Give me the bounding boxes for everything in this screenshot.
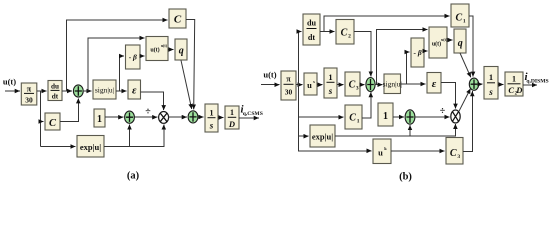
svg-text:u(t): u(t) xyxy=(150,47,159,54)
svg-text:exp|u|: exp|u| xyxy=(312,132,333,142)
svg-text:s: s xyxy=(209,121,214,131)
block: π/30 gain (a) xyxy=(21,83,37,105)
block: -β gain (a) xyxy=(126,45,141,69)
wire: S1 to sign|u| (a) xyxy=(83,90,91,92)
wire: bottom C3 up into final sum bottom (b) xyxy=(463,91,472,151)
wire: ε to product top port (b) xyxy=(441,83,456,109)
wire: -β to u(t)^u(t) (b) xyxy=(424,50,428,52)
wire: S2 to product (a) xyxy=(134,116,157,118)
wire: q diagonal down to final sum (b) xyxy=(460,53,471,77)
block: 1/(C2D) gain (b) xyxy=(505,72,523,97)
wire: final sum to 1/s (b) xyxy=(479,83,483,85)
svg-text:(b): (b) xyxy=(399,172,412,183)
svg-text:÷: ÷ xyxy=(440,106,446,117)
svg-text:30: 30 xyxy=(285,88,293,97)
svg-text:u(t): u(t) xyxy=(263,70,276,80)
wire: riser down to u^k row (b) xyxy=(299,85,372,151)
svg-text:π: π xyxy=(27,85,32,94)
wire: sign|u| to ε (b) xyxy=(401,83,426,85)
wire: u(t)^u(t) to q (a) xyxy=(168,49,174,51)
svg-text:÷: ÷ xyxy=(145,107,151,118)
block: -β gain (b) xyxy=(411,38,424,67)
svg-text:sign|u|: sign|u| xyxy=(383,80,402,89)
block: C1 gain mid (b) xyxy=(345,105,362,129)
svg-text:30: 30 xyxy=(25,96,33,105)
wire: input arrow into π/30 (a) xyxy=(5,90,20,92)
block: 1/D gain (a) xyxy=(225,106,239,129)
svg-text:3: 3 xyxy=(356,86,359,92)
wire: ε to product top port (a) xyxy=(141,92,164,110)
wire: riser from du/dt output up to top C block (a) xyxy=(67,20,168,91)
block: ε gain (b) xyxy=(427,73,441,94)
svg-text:u: u xyxy=(307,80,312,90)
node: sum junction S1 (a) xyxy=(73,85,83,97)
svg-text:C: C xyxy=(174,14,182,26)
block: exp|u| (a) xyxy=(77,136,104,158)
wire: exp|u| output to product bottom (a) xyxy=(104,125,164,147)
wire: small sum to product (b) xyxy=(415,116,450,118)
svg-text:q: q xyxy=(179,46,184,57)
svg-text:du: du xyxy=(307,18,317,27)
wire: C1 mid up into main sum bottom (b) xyxy=(362,92,371,118)
svg-text:- β: - β xyxy=(129,53,137,62)
svg-text:u(t): u(t) xyxy=(161,44,168,48)
svg-text:s: s xyxy=(328,86,333,96)
wire: u(t)^u(t) to q (b) xyxy=(447,39,453,41)
wire: output arrow (a) xyxy=(239,117,259,119)
wire: branch up into small sum bottom (b) xyxy=(409,125,411,136)
svg-text:C: C xyxy=(349,113,356,124)
node: small sum junction (b) xyxy=(405,110,415,124)
block: q gain (a) xyxy=(175,39,187,60)
block: du/dt derivative (b) xyxy=(303,14,320,45)
svg-text:u(t): u(t) xyxy=(432,41,441,48)
svg-text:C: C xyxy=(341,28,348,39)
block: C gain top (a) xyxy=(169,9,186,28)
node: product/divide circle (b) xyxy=(451,110,460,123)
svg-text:C: C xyxy=(455,13,462,24)
block: integrator 1/s (a) xyxy=(205,104,218,132)
wire: branch riser down from π/30 output (a) xyxy=(40,91,42,147)
wire: branch into exp|u| (b) xyxy=(299,135,309,137)
svg-text:C: C xyxy=(349,80,356,91)
block: exp|u| (b) xyxy=(310,125,335,147)
node: final sum junction (b) xyxy=(469,78,478,90)
wire: q diagonal down to sum S3 (a) xyxy=(181,60,192,109)
svg-text:s: s xyxy=(313,79,315,84)
wire: u^s to 1/s (b) xyxy=(317,84,323,86)
svg-text:D: D xyxy=(515,85,522,95)
node: product/divide circle (a) xyxy=(159,112,169,124)
block: u^k power (b) xyxy=(373,139,391,164)
svg-text:1: 1 xyxy=(328,72,332,82)
wire: π/30 to u^s (b) xyxy=(296,84,303,86)
svg-text:dt: dt xyxy=(308,33,316,42)
svg-text:1: 1 xyxy=(209,107,213,117)
svg-text:u(t): u(t) xyxy=(3,77,16,87)
block: constant 1 (a) xyxy=(94,109,105,127)
wire: riser to u(t)^u(t) top input (b) xyxy=(377,30,428,85)
wire: output arrow (b) xyxy=(523,84,537,86)
wire: riser from du/dt output to C1 top (b) xyxy=(324,16,450,32)
wire: u^k to bottom C3 (b) xyxy=(391,150,445,152)
svg-text:D: D xyxy=(228,119,235,129)
wire: -β to u(t)^u(t) (a) xyxy=(140,55,145,57)
block: π/30 gain (b) xyxy=(281,71,296,100)
svg-text:1: 1 xyxy=(97,114,102,125)
svg-text:1: 1 xyxy=(230,108,234,117)
svg-text:1: 1 xyxy=(512,75,516,84)
block: C1 gain top (b) xyxy=(451,4,469,27)
svg-text:exp|u|: exp|u| xyxy=(80,142,101,152)
wire: du/dt to C2 (b) xyxy=(320,31,335,33)
svg-text:u: u xyxy=(378,148,383,158)
wire: lower C up into S1 bottom (a) xyxy=(60,98,78,121)
block: integrator 1/s (b2) xyxy=(484,67,498,100)
wire: C2 down into main sum top (b) xyxy=(354,32,371,77)
block: u(t)^u(t) power function (a) xyxy=(146,37,168,61)
svg-text:q,CSMS: q,CSMS xyxy=(243,111,263,117)
svg-text:1: 1 xyxy=(463,19,466,25)
svg-text:sign|u|: sign|u| xyxy=(95,85,114,94)
node: sum junction S2 (a) xyxy=(125,111,135,123)
wire: branch into C1 mid (b) xyxy=(299,116,344,118)
node: sum junction S3 (a) xyxy=(188,111,198,123)
wire: du/dt to sum S1 (a) xyxy=(62,90,72,92)
svg-text:3: 3 xyxy=(457,154,460,160)
wire: C1 down into final sum top (b) xyxy=(469,16,473,77)
wire: exp|u| output to product bottom (b) xyxy=(335,124,455,136)
svg-text:C: C xyxy=(49,118,57,129)
block: ε gain (a) xyxy=(128,80,141,99)
wire: sign|u| to ε (a) xyxy=(116,90,127,92)
wire: riser to -β (b) xyxy=(406,52,409,84)
block: du/dt derivative (a) xyxy=(48,81,62,101)
block: sign|u| (b) xyxy=(383,74,402,94)
block: C3 gain bottom (b) xyxy=(446,138,463,165)
svg-text:ε: ε xyxy=(132,84,137,96)
svg-text:q: q xyxy=(458,38,463,49)
svg-text:C: C xyxy=(450,148,457,159)
svg-text:ε: ε xyxy=(432,78,437,90)
svg-text:s: s xyxy=(488,87,493,97)
wire: 1/s to C3 (b) xyxy=(337,84,344,86)
svg-text:1: 1 xyxy=(383,111,388,122)
svg-text:2: 2 xyxy=(348,34,351,40)
block: u^s power (b) xyxy=(304,73,317,95)
block: constant 1 (b) xyxy=(378,103,393,126)
svg-text:1: 1 xyxy=(357,119,360,125)
svg-text:C: C xyxy=(508,85,514,95)
wire: product to sum S3 (a) xyxy=(169,116,187,118)
wire: product diagonal to final sum (b) xyxy=(459,89,471,112)
svg-text:- β: - β xyxy=(413,48,421,57)
svg-text:π: π xyxy=(286,75,291,84)
block: q gain (b) xyxy=(454,29,466,53)
block: sign|u| (a) xyxy=(93,80,116,99)
wire: branch into exp|u| (a) xyxy=(41,146,76,148)
svg-text:q,DISMS: q,DISMS xyxy=(526,78,548,84)
wire: π/30 to du/dt (a) xyxy=(37,90,47,92)
block: C3 gain main row (b) xyxy=(345,72,360,96)
wire: main sum to sign|u| (b) xyxy=(375,84,383,86)
wire: 1/s to 1/C2D (b) xyxy=(498,84,504,86)
wire: 1 to small sum (b) xyxy=(393,116,404,118)
block: C gain lower (a) xyxy=(45,113,60,130)
svg-text:du: du xyxy=(51,83,59,91)
wire: branch into C gain (a) xyxy=(41,121,44,123)
wire: 1 to sum S2 (a) xyxy=(105,116,123,118)
wire: 1/s to 1/D (a) xyxy=(218,117,224,119)
svg-text:(a): (a) xyxy=(127,170,140,181)
svg-text:dt: dt xyxy=(52,93,59,101)
wire: riser to -β (a) xyxy=(120,56,125,91)
block: u(t)^u(t) power function (b) xyxy=(429,27,448,58)
block: C2 gain (b) xyxy=(336,20,354,45)
block: integrator 1/s (b1) xyxy=(324,68,337,98)
wire: top C down to sum S3 (a) xyxy=(186,20,195,110)
node: main sum junction (b) xyxy=(366,78,375,92)
svg-text:1: 1 xyxy=(489,72,493,82)
wire: C3 to main sum (b) xyxy=(360,84,365,86)
wire: riser to u(t)^u(t) top input (a) xyxy=(88,38,145,91)
wire: input arrow into π/30 (b) xyxy=(261,84,280,86)
svg-text:u(t): u(t) xyxy=(441,38,448,42)
wire: riser up to du/dt (b) xyxy=(299,32,302,85)
wire: branch up into S2 bottom (a) xyxy=(129,125,131,147)
wire: S3 to 1/s (a) xyxy=(198,116,204,118)
